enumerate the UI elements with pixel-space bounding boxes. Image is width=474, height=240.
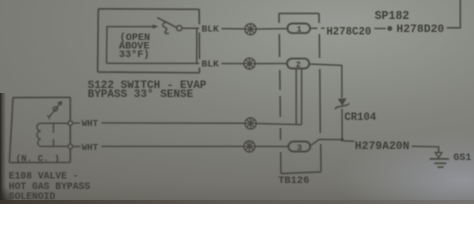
wire diode to node N	[341, 109, 343, 140]
svg-text:SOLENOID: SOLENOID	[9, 191, 56, 202]
wire H278D20 up to page edge	[447, 0, 461, 28]
connector symbol row D	[244, 141, 255, 152]
svg-text:1: 1	[297, 25, 302, 35]
node N junction	[341, 138, 344, 141]
diode CR104	[335, 98, 349, 109]
terminal circle WHT2	[68, 144, 73, 149]
wire node N to label	[344, 140, 355, 142]
svg-text:SP182: SP182	[375, 10, 410, 23]
svg-text:2: 2	[296, 60, 301, 70]
svg-text:CR104: CR104	[344, 112, 376, 124]
svg-text:WHT: WHT	[82, 142, 99, 153]
inner box bottom edge / wire row B	[107, 62, 200, 64]
svg-text:H278C20: H278C20	[326, 26, 371, 38]
switch S122 contact circle	[177, 26, 182, 31]
switch S122 blade	[157, 18, 177, 28]
terminal 2 oval	[287, 59, 309, 69]
svg-text:BLK: BLK	[202, 59, 220, 70]
wire connector to terminal 2	[255, 63, 287, 65]
connector symbol row C	[245, 118, 256, 129]
wire connector to terminal 1	[256, 28, 287, 30]
wire switch to box edge row A	[182, 27, 199, 29]
svg-text:H278D20: H278D20	[396, 24, 444, 36]
wire label to ground	[412, 146, 439, 152]
wire BLK row A to connector	[222, 28, 245, 30]
ground GS1 symbol	[430, 153, 449, 168]
wire connector to terminal 3	[255, 145, 288, 147]
svg-text:TB126: TB126	[278, 175, 309, 187]
wire stub WHT1	[73, 122, 80, 124]
solenoid coil E108	[37, 123, 68, 146]
valve E108 box	[9, 97, 70, 162]
terminal block TB126 dashed box	[279, 13, 321, 173]
connector symbol row B	[244, 58, 255, 69]
wire node N to terminal 3	[310, 139, 342, 146]
svg-text:(N. C. ): (N. C. )	[16, 153, 60, 164]
svg-text:BYPASS 33° SENSE: BYPASS 33° SENSE	[88, 89, 194, 101]
wire to splice	[374, 28, 386, 30]
terminal 1 oval	[287, 24, 310, 34]
terminal 3 oval	[288, 142, 310, 152]
connector symbol row A	[245, 24, 256, 35]
wire WHT2 to connector	[102, 145, 244, 147]
svg-text:3: 3	[297, 143, 302, 153]
svg-text:33°F): 33°F)	[119, 49, 150, 61]
wire connector to riser corner row C	[256, 124, 301, 125]
svg-text:H279A20N: H279A20N	[355, 141, 410, 153]
splice SP182 junction dot	[387, 26, 392, 31]
valve actuator arrow	[47, 102, 61, 120]
wire terminal 1 to label	[310, 27, 325, 29]
wire stub WHT2	[74, 146, 81, 148]
wire terminal 2 to diode branch	[309, 64, 342, 98]
switch S122 outer box	[98, 9, 200, 73]
switch S122 thermal squiggle	[163, 22, 169, 34]
wire BLK row B to connector	[222, 63, 244, 65]
wire WHT1 to connector	[102, 122, 245, 124]
riser pair to terminal 2	[296, 69, 301, 125]
terminal circle WHT1	[68, 121, 73, 126]
S122 inner note box	[107, 27, 197, 64]
switch S122 pivot arrow	[153, 25, 159, 29]
svg-text:GS1: GS1	[453, 153, 471, 164]
svg-text:WHT: WHT	[82, 118, 99, 129]
svg-text:BLK: BLK	[202, 24, 220, 35]
